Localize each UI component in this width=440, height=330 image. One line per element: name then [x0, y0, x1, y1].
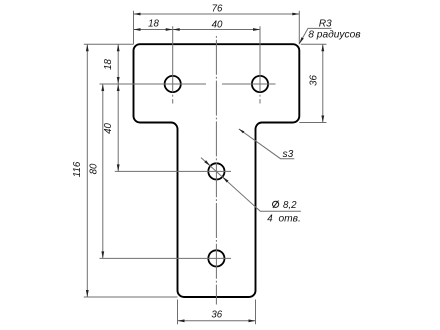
wire: leader R3 — [299, 28, 331, 44]
wire: centerline row2 middle hole — [115, 170, 231, 172]
svg-text:36: 36 — [211, 309, 222, 320]
svg-text:отв.: отв. — [279, 213, 301, 224]
svg-text:R3: R3 — [319, 18, 332, 29]
svg-text:36: 36 — [309, 75, 320, 86]
svg-text:76: 76 — [212, 4, 223, 15]
wire: leader diameter 8.2 — [201, 158, 301, 212]
wire: vertical centerline hole col1 — [172, 26, 174, 103]
wire: extension 36 bottom right — [255, 300, 257, 325]
wire: centerline row3 bottom hole — [100, 257, 232, 259]
wire: dimension line 18/40 left — [117, 44, 119, 171]
wire: vertical centerline hole col2 — [259, 26, 261, 103]
wire: dimension line 80 — [102, 84, 104, 258]
svg-text:18: 18 — [103, 59, 114, 70]
svg-text:80: 80 — [88, 163, 99, 174]
wire: extension top-left corner — [84, 43, 134, 45]
node hole middle — [208, 163, 224, 179]
svg-text:4: 4 — [267, 213, 273, 224]
wire: extension 36 right top — [301, 43, 327, 45]
wire: dimension line 36 right — [322, 44, 324, 122]
wire: centerline row1 through top holes — [100, 83, 276, 85]
svg-text:s3: s3 — [283, 149, 294, 160]
svg-text:18: 18 — [148, 18, 159, 29]
node hole top-right — [252, 76, 268, 92]
svg-text:116: 116 — [72, 161, 83, 177]
wire: vertical centerline — [215, 36, 217, 305]
wire: part outline T-plate — [134, 44, 300, 297]
wire: dimension line 36 bottom — [178, 320, 256, 322]
wire: dimension line 116 — [86, 44, 88, 297]
wire: leader s3 — [239, 129, 294, 159]
node label diameter symbol — [273, 201, 279, 208]
wire: extension 76 right — [298, 11, 300, 44]
wire: extension bottom edge left — [84, 296, 178, 298]
wire: dimension line 76 — [134, 13, 300, 15]
svg-text:8,2: 8,2 — [283, 200, 297, 211]
svg-text:40: 40 — [103, 123, 114, 134]
svg-text:8 радиусов: 8 радиусов — [308, 30, 361, 41]
wire: extension 36 right bottom — [299, 122, 326, 124]
node hole bottom — [208, 250, 224, 266]
wire: extension 36 bottom left — [177, 300, 179, 325]
wire: dimension line 18/40 top — [134, 29, 261, 31]
node hole top-left — [165, 76, 181, 92]
wire: extension 76 left — [133, 11, 135, 44]
svg-text:40: 40 — [212, 19, 223, 30]
